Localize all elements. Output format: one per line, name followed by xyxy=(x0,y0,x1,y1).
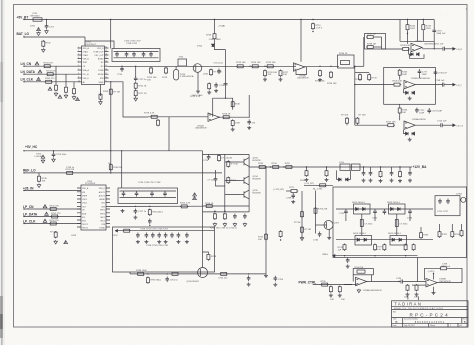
junction ba b xyxy=(283,166,284,167)
svg-text:R758 1K: R758 1K xyxy=(205,203,214,205)
ground q706 row end xyxy=(264,274,268,278)
node BAT_LO dot xyxy=(23,36,24,37)
op-amp U702A xyxy=(294,63,305,71)
svg-text:104P: 104P xyxy=(402,74,408,76)
terminal LN_R arrow xyxy=(453,48,455,50)
svg-text:C753 C754 C755 C756 C757: C753 C754 C755 C756 C757 xyxy=(140,228,169,230)
svg-text:LN_CLK: LN_CLK xyxy=(21,78,34,82)
svg-text:R765: R765 xyxy=(285,163,291,165)
capacitor C725 xyxy=(247,119,251,125)
wire +5V_HC rail xyxy=(24,150,203,152)
diode bridge box D715 xyxy=(390,236,407,246)
IC U705 pin names left xyxy=(82,187,89,229)
junction chain b xyxy=(264,66,265,67)
svg-text:R787 (NC): R787 (NC) xyxy=(150,280,161,282)
svg-text:U706A LM158: U706A LM158 xyxy=(412,118,426,121)
ground R706 xyxy=(54,92,58,96)
ground R768 xyxy=(379,179,383,183)
wire stubs ba hang xyxy=(307,167,411,170)
svg-text:R703 270: R703 270 xyxy=(44,63,54,65)
wire ring bottom xyxy=(335,255,418,257)
box 115V caps xyxy=(113,227,215,272)
resistor R769 xyxy=(399,170,402,177)
wire +5VA seg3 xyxy=(215,40,226,50)
wire LP_DATA xyxy=(24,216,81,218)
svg-text:R704 270: R704 270 xyxy=(47,71,57,73)
ground R795 xyxy=(406,293,410,297)
IC U705 right pin stubs xyxy=(106,188,110,227)
resistor R712 xyxy=(150,67,153,74)
resistor R754 xyxy=(148,209,151,216)
capacitor C761 xyxy=(165,277,169,283)
svg-text:U703B LM158/SO8: U703B LM158/SO8 xyxy=(411,78,430,80)
svg-text:10K: 10K xyxy=(402,112,406,114)
diode D701 xyxy=(37,28,41,31)
svg-text:C751 C752: C751 C752 xyxy=(437,211,449,213)
svg-text:BC847B: BC847B xyxy=(253,160,262,162)
svg-text:R737 1M: R737 1M xyxy=(367,34,376,36)
diode D712a xyxy=(356,207,359,210)
title block col line size xyxy=(402,318,404,324)
wire bus to REF_LO xyxy=(110,82,112,173)
svg-text:270K: 270K xyxy=(235,123,241,125)
svg-text:TADIRAN: TADIRAN xyxy=(394,302,422,307)
ground R767 xyxy=(325,178,329,182)
resistor R714 xyxy=(210,69,213,76)
wire collector bus xyxy=(248,154,250,212)
resistor R767 xyxy=(325,170,328,177)
wire +5V rail xyxy=(24,19,434,21)
sub box cap b xyxy=(446,199,450,205)
wire op1 to terminal xyxy=(444,48,452,50)
junction op1 out xyxy=(434,48,435,49)
capacitor C705 xyxy=(115,52,119,58)
junction ba a xyxy=(270,166,271,167)
resistor R737 xyxy=(366,36,374,39)
wire bridge bus 2 xyxy=(336,239,433,241)
svg-text:R782: R782 xyxy=(442,234,448,236)
capacitor C753 xyxy=(136,233,140,239)
svg-text:C? 470n: C? 470n xyxy=(399,224,408,226)
svg-text:U704: U704 xyxy=(71,235,77,237)
capacitor C732 xyxy=(243,214,247,220)
transistor Q706 circle xyxy=(198,268,208,278)
svg-text:10K: 10K xyxy=(341,299,345,301)
resistor R743 xyxy=(398,69,401,76)
transistor Q703 xyxy=(240,158,249,167)
diode D713a xyxy=(391,207,394,210)
op1 ladder vertical b xyxy=(417,20,419,42)
svg-text:B: B xyxy=(396,320,398,324)
diode D712b xyxy=(363,207,366,210)
node C728 dot xyxy=(149,225,150,226)
svg-text:DTMF: DTMF xyxy=(98,70,104,72)
op-amp U702B xyxy=(208,113,219,121)
svg-text:Q701: Q701 xyxy=(203,74,209,76)
potentiometer R736 element xyxy=(341,61,350,65)
wire op5 to op6 xyxy=(402,281,426,283)
svg-text:C758 C759 C760 C761: C758 C759 C760 C761 xyxy=(146,245,169,247)
wire op5 out xyxy=(367,281,401,283)
svg-text:R? 10K: R? 10K xyxy=(50,232,58,234)
resistor R720 xyxy=(157,119,160,126)
svg-text:R766: R766 xyxy=(300,180,306,182)
wire q706 row xyxy=(130,273,266,275)
svg-text:BAT_LO: BAT_LO xyxy=(17,32,30,36)
svg-text:C748 1uF: C748 1uF xyxy=(435,80,445,82)
resistor R746 xyxy=(398,107,401,114)
feedback resistor R797 xyxy=(439,267,447,270)
wire op2 output xyxy=(415,84,443,86)
wire diode loop xyxy=(409,49,411,54)
capacitor C748 xyxy=(443,83,444,87)
wire op6 feedback loop xyxy=(425,268,441,280)
wire U702B input L path xyxy=(109,82,149,117)
ground below U701 xyxy=(99,101,103,105)
node +5V_BT dot xyxy=(23,19,24,20)
svg-text:1: 1 xyxy=(78,47,79,49)
wire stub to title2 xyxy=(417,296,419,300)
diode D715b xyxy=(399,238,402,241)
ground U708B xyxy=(432,291,436,295)
diode pair D703 xyxy=(411,53,414,56)
svg-text:88209644J0051: 88209644J0051 xyxy=(415,321,445,324)
title block col line sheet3 xyxy=(457,323,459,327)
wire U702B fb top xyxy=(213,98,233,117)
node LP_DATA dot xyxy=(23,216,24,217)
resistor R722 xyxy=(231,101,234,108)
wire op3 output xyxy=(415,124,440,126)
diode D714a xyxy=(357,238,360,241)
wire +12V op6 drop xyxy=(433,274,435,280)
capacitor C707 xyxy=(132,52,136,58)
diode D713b xyxy=(398,207,401,210)
ground C732 xyxy=(243,223,247,227)
capacitor C719 xyxy=(432,28,436,34)
resistor R770 xyxy=(265,233,268,240)
svg-text:R? 10K: R? 10K xyxy=(341,115,349,117)
capacitor C736 xyxy=(369,170,373,176)
svg-text:10K: 10K xyxy=(404,297,408,299)
resistor mid link b xyxy=(395,220,398,227)
svg-text:1: 1 xyxy=(450,325,451,327)
svg-text:BC847B: BC847B xyxy=(253,192,262,194)
svg-text:3: 3 xyxy=(78,54,79,56)
capacitor C739 xyxy=(291,193,295,199)
ground C736 xyxy=(369,179,373,183)
node LP_CN dot xyxy=(23,208,24,209)
IC U701 pin names left column xyxy=(83,47,90,84)
scanner left dark blotch top xyxy=(1,62,3,102)
transistor Q701 bar xyxy=(195,65,197,71)
junction +5V capbox xyxy=(110,19,111,20)
wire +5VA seg2 xyxy=(214,28,216,33)
resistor R716 xyxy=(213,33,216,40)
svg-text:C? 1uF: C? 1uF xyxy=(208,180,216,182)
svg-text:AOUT2: AOUT2 xyxy=(99,194,105,197)
ground C756 xyxy=(157,240,161,244)
svg-text:U703A: U703A xyxy=(415,40,422,43)
svg-text:ANALOG TELECOMMUNICATIONS: ANALOG TELECOMMUNICATIONS xyxy=(394,307,443,310)
ground C763 xyxy=(247,283,251,287)
junction rb a xyxy=(344,255,345,256)
diode pair D705 xyxy=(406,91,409,94)
wire R744 stub xyxy=(422,20,424,24)
ground R769 xyxy=(398,179,402,183)
svg-text:SPK2: SPK2 xyxy=(100,213,105,215)
ground R708 xyxy=(72,96,76,100)
svg-text:VDD_D: VDD_D xyxy=(99,188,106,190)
wire out vert up xyxy=(248,95,250,117)
capacitor box2 bus bottom xyxy=(120,197,177,199)
wire R742 drop xyxy=(407,31,409,44)
svg-text:R789: R789 xyxy=(211,256,217,258)
svg-text:R748 1M: R748 1M xyxy=(113,167,122,169)
capacitor C712 xyxy=(134,76,138,82)
resistor R744 xyxy=(422,24,425,31)
resistor R727 xyxy=(279,70,282,77)
capacitor C724 xyxy=(441,123,442,127)
svg-text:U708A LM158/SO8: U708A LM158/SO8 xyxy=(363,289,382,292)
resistor R703 xyxy=(43,65,51,68)
wire pulldown bus 3 xyxy=(73,82,75,88)
wire C726 stub xyxy=(53,151,55,152)
diode bridge box D713 xyxy=(389,204,406,214)
svg-text:R734 10K: R734 10K xyxy=(327,83,337,85)
svg-text:R754 (NC): R754 (NC) xyxy=(152,212,163,214)
transducer circle xyxy=(461,197,466,202)
svg-text:C710: C710 xyxy=(117,74,123,76)
svg-text:C727 1n: C727 1n xyxy=(138,211,147,213)
svg-text:R? 1M: R? 1M xyxy=(304,229,311,231)
svg-text:PCD3310T: PCD3310T xyxy=(85,183,96,185)
ground op3 diodes xyxy=(408,138,412,142)
svg-text:Title: Title xyxy=(393,310,397,313)
wire LN_DATA xyxy=(24,73,82,75)
capacitor C731 xyxy=(233,214,237,220)
svg-text:DGND: DGND xyxy=(99,227,105,229)
module box ring generator xyxy=(333,187,467,258)
junction IC out bus xyxy=(110,81,111,82)
svg-text:RING: RING xyxy=(323,254,329,256)
svg-text:R750 270: R750 270 xyxy=(50,205,60,207)
svg-text:A0: A0 xyxy=(83,81,85,84)
wire R746 drop xyxy=(399,114,401,120)
warning triangle C xyxy=(76,98,80,101)
svg-text:1M: 1M xyxy=(108,163,111,165)
title block col line sheet2 xyxy=(447,323,449,327)
junction ba d xyxy=(326,166,327,167)
capacitor box inner bus bottom xyxy=(114,57,159,59)
svg-text:C701: C701 xyxy=(49,27,55,29)
resistor R705 xyxy=(45,80,53,83)
junction op5 out xyxy=(398,281,399,282)
resistor R730b xyxy=(356,117,359,124)
svg-text:SDA_A: SDA_A xyxy=(83,69,90,72)
op-amp U708A xyxy=(356,277,367,285)
transistor Q707 bar xyxy=(326,222,328,228)
svg-text:R786 150K: R786 150K xyxy=(136,270,147,272)
ground C764 xyxy=(273,283,277,287)
capacitor C709 xyxy=(149,52,153,58)
diode pair D707 xyxy=(406,132,409,135)
SEC_MIDRIGHT2 xyxy=(113,227,463,300)
wire BAT_LO xyxy=(24,36,85,38)
svg-text:+5V_BT: +5V_BT xyxy=(17,16,29,20)
wire bottom rail left xyxy=(203,211,250,213)
ground C754 xyxy=(144,240,148,244)
junction op2 input xyxy=(354,84,355,85)
fuse F701 xyxy=(33,18,42,21)
diode bridge box D714 xyxy=(355,236,372,246)
diode pair D708 xyxy=(412,132,415,135)
capacitor C729 xyxy=(207,154,211,160)
svg-text:VSS_D: VSS_D xyxy=(83,78,90,80)
capacitor C728 xyxy=(148,219,152,225)
node LN_CLK dot xyxy=(23,81,24,82)
ground capbox2 xyxy=(121,209,125,213)
svg-text:D815 DF04-1: D815 DF04-1 xyxy=(388,233,402,235)
ground C727 xyxy=(133,216,137,220)
title block outer rect xyxy=(392,301,469,327)
svg-text:OSC1: OSC1 xyxy=(82,199,87,201)
wire +5VA drop from rail xyxy=(214,20,216,29)
wire fb5 links xyxy=(353,275,371,282)
wire below U701 xyxy=(100,85,102,97)
svg-text:LP_CN: LP_CN xyxy=(23,205,34,209)
svg-text:VDD_A: VDD_A xyxy=(82,187,89,190)
wire op3 to terminal xyxy=(442,124,453,126)
resistor R748b on bus xyxy=(109,164,112,171)
svg-text:C? 470n: C? 470n xyxy=(364,224,373,226)
svg-text:R? 1M: R? 1M xyxy=(294,222,301,224)
svg-text:10K: 10K xyxy=(268,74,272,76)
transistor Q701 emitter wire xyxy=(197,72,199,89)
svg-text:C761 1n: C761 1n xyxy=(170,280,179,282)
IC U705 body xyxy=(81,185,106,230)
title block row line 3 xyxy=(392,317,469,319)
wire diode loop3 xyxy=(404,130,406,134)
ground R733 xyxy=(318,78,322,82)
ground C713b xyxy=(214,89,218,93)
node LN_CN dot xyxy=(23,66,24,67)
op-amp U708B xyxy=(426,278,437,286)
svg-text:LN_CN: LN_CN xyxy=(21,62,32,66)
svg-text:C764: C764 xyxy=(278,279,284,281)
svg-text:R745 10K: R745 10K xyxy=(393,81,403,83)
junction R742 rail xyxy=(407,19,408,20)
svg-text:C762 10n: C762 10n xyxy=(218,278,228,280)
ground C731 xyxy=(233,223,237,227)
wire mid rail from U701 xyxy=(109,65,297,67)
wire C717 drop xyxy=(418,75,420,78)
ground C737 xyxy=(390,179,394,183)
svg-text:R? 10K: R? 10K xyxy=(231,164,239,166)
transistor Q706 bar xyxy=(200,269,202,276)
ground U708B wire xyxy=(433,287,435,291)
svg-text:(NM) 1uF: (NM) 1uF xyxy=(437,33,447,35)
junction ba e xyxy=(363,166,364,167)
resistor R761 xyxy=(223,213,226,220)
svg-text:C724 1uF: C724 1uF xyxy=(437,121,447,123)
capacitor C715 inline xyxy=(224,84,228,85)
junction q706 c xyxy=(248,273,249,274)
junction +5VA xyxy=(214,19,215,20)
capacitor C765 xyxy=(401,280,402,284)
resistor R752 xyxy=(49,222,57,225)
resistor R786 xyxy=(137,272,145,275)
capacitor C713b xyxy=(214,83,218,89)
wire U702A feedback xyxy=(296,67,307,75)
svg-text:T701: T701 xyxy=(179,57,185,59)
scanner left edge strip xyxy=(0,0,5,345)
wire U702B out xyxy=(219,116,250,118)
inductor L703 box xyxy=(340,164,350,170)
warning triangle LN_CN xyxy=(35,62,39,65)
resistor R760 xyxy=(66,171,74,174)
capacitor C759 xyxy=(177,233,181,239)
wire op5 input2 xyxy=(344,283,357,285)
resistor R709 xyxy=(99,93,102,100)
wire pwr ctrl xyxy=(313,284,352,286)
svg-text:10K: 10K xyxy=(147,79,151,81)
inductor L704 box xyxy=(352,164,361,170)
SEC_BOTTOM2 xyxy=(42,9,468,302)
capacitor C760 xyxy=(185,233,189,239)
terminal ring arrow xyxy=(333,255,335,257)
op-amp U703A xyxy=(411,43,422,51)
svg-text:MF-R250: MF-R250 xyxy=(31,16,41,18)
svg-text:10K: 10K xyxy=(258,239,262,241)
svg-text:R781: R781 xyxy=(423,235,429,237)
svg-text:of 1: of 1 xyxy=(459,325,462,327)
diode D709 xyxy=(41,155,45,158)
junction mid rail a xyxy=(121,66,122,67)
junction bl b xyxy=(224,211,225,212)
resistor R790 xyxy=(220,272,228,275)
scanner left edge line xyxy=(1,0,3,345)
resistor R798 xyxy=(279,230,282,237)
wire diode loop bottom xyxy=(410,54,425,58)
wire bridge vert links xyxy=(346,214,410,236)
resistor R758 xyxy=(205,205,213,208)
svg-text:+26_IN: +26_IN xyxy=(23,186,34,190)
capacitor box inner bus top xyxy=(114,51,159,53)
capacitor C755 xyxy=(151,233,155,239)
resistor R784 xyxy=(460,230,463,237)
svg-text:MIC2: MIC2 xyxy=(100,220,105,222)
wire op2 input xyxy=(355,84,393,86)
wire R742 stub xyxy=(407,20,409,24)
wire R730 stubs xyxy=(347,123,357,126)
wire BAT_LO to U701 xyxy=(85,37,114,49)
resistor R713b on bus xyxy=(109,88,112,95)
resistor R796 xyxy=(415,284,418,291)
IC U705 pin names right xyxy=(99,188,106,229)
svg-text:R716: R716 xyxy=(206,35,212,37)
wire R746 top xyxy=(399,104,401,107)
wire base links xyxy=(216,162,241,195)
capacitor C706 xyxy=(125,52,129,58)
junction rb b xyxy=(374,255,375,256)
ground R727 xyxy=(279,78,283,82)
varistor VR701 capsule xyxy=(174,70,179,81)
terminal LN_T1 arrow xyxy=(453,124,455,126)
resistor R798 dot xyxy=(280,239,281,240)
svg-text:+12V_BA: +12V_BA xyxy=(413,165,428,169)
wire op6 feedback right xyxy=(448,268,462,282)
junction q706 b xyxy=(167,273,168,274)
